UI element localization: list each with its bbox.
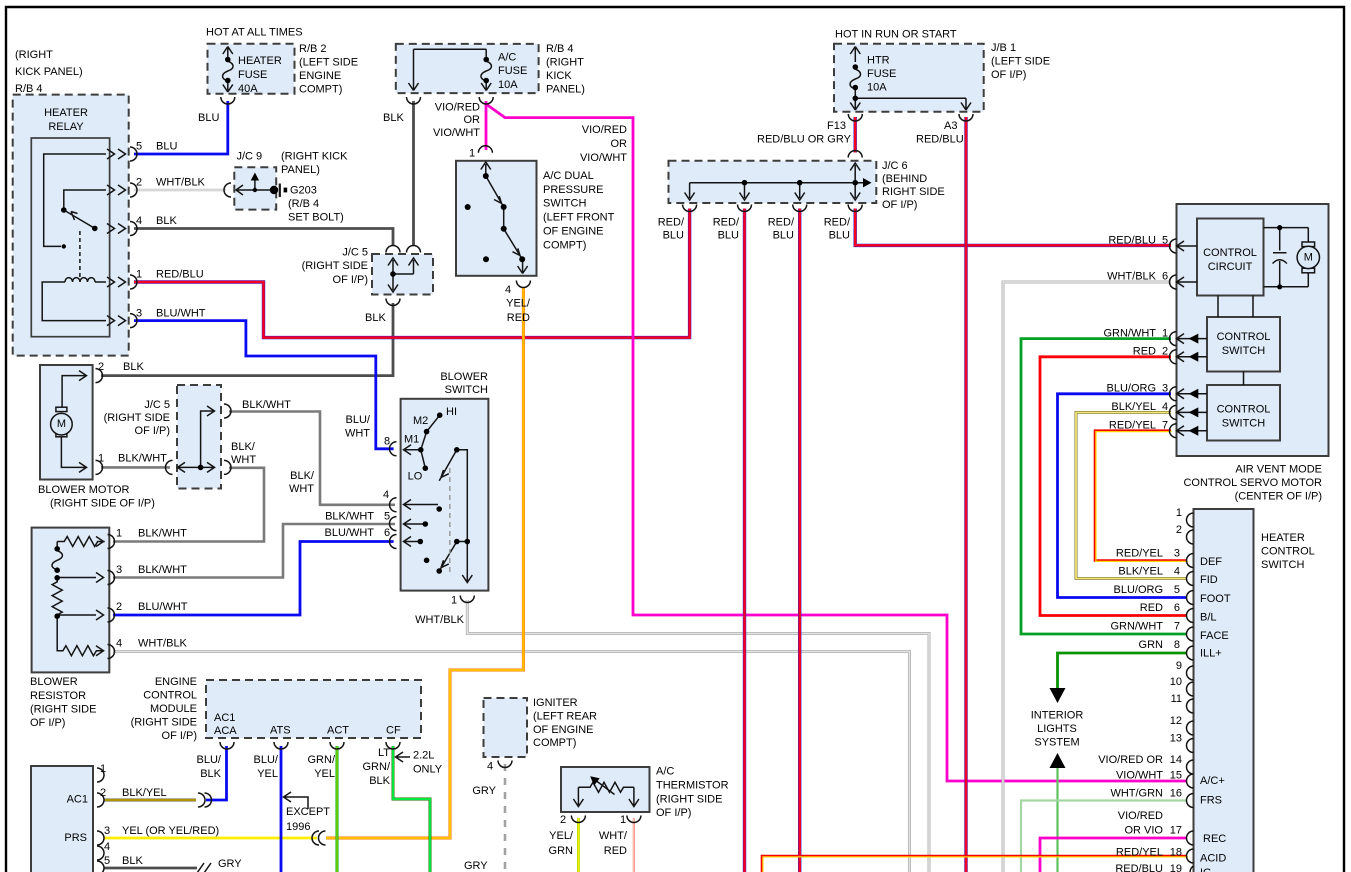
svg-text:BLK/WHT: BLK/WHT bbox=[118, 453, 167, 465]
svg-text:CONTROL SERVO MOTOR: CONTROL SERVO MOTOR bbox=[1183, 477, 1322, 489]
svg-text:5: 5 bbox=[384, 511, 390, 523]
svg-text:EXCEPT: EXCEPT bbox=[286, 806, 330, 818]
svg-text:BLU/WHT: BLU/WHT bbox=[325, 527, 375, 539]
svg-text:(RIGHT: (RIGHT bbox=[546, 57, 584, 69]
svg-text:BLU/WHT: BLU/WHT bbox=[138, 601, 188, 613]
svg-text:OF I/P): OF I/P) bbox=[162, 730, 197, 742]
svg-text:OF I/P): OF I/P) bbox=[991, 69, 1026, 81]
svg-text:VIO/RED: VIO/RED bbox=[1118, 810, 1163, 822]
blower switch S2 internals bbox=[404, 415, 475, 602]
heater relay inner contact box bbox=[31, 138, 109, 337]
wire WHT/RED thermistor pin 1 to bottom bbox=[633, 818, 635, 872]
svg-text:BLK/WHT: BLK/WHT bbox=[325, 511, 374, 523]
svg-text:M: M bbox=[1304, 252, 1313, 264]
control switch box 1 inside servo bbox=[1207, 317, 1280, 372]
wire RED/YEL heater control switch pin 18 ACID to bottom bbox=[762, 856, 1187, 872]
wire GRN/YEL ECM pin ACT to bottom bbox=[336, 746, 339, 872]
svg-text:LT: LT bbox=[378, 747, 390, 759]
svg-text:18: 18 bbox=[1170, 847, 1182, 859]
svg-text:OF I/P): OF I/P) bbox=[30, 717, 65, 729]
svg-text:WHT: WHT bbox=[345, 428, 370, 440]
svg-text:J/C 5: J/C 5 bbox=[342, 247, 368, 259]
svg-text:OF I/P): OF I/P) bbox=[333, 274, 368, 286]
A/C fuse element bbox=[407, 49, 494, 104]
svg-text:GRY: GRY bbox=[472, 785, 496, 797]
heater fuse element bbox=[221, 47, 235, 105]
svg-text:2: 2 bbox=[560, 814, 566, 826]
svg-text:VIO/RED OR: VIO/RED OR bbox=[1098, 754, 1163, 766]
junction block J/C 9 with ground G203 bbox=[234, 167, 276, 209]
svg-text:KICK PANEL): KICK PANEL) bbox=[15, 66, 83, 78]
svg-text:HEATER: HEATER bbox=[44, 107, 88, 119]
resistor R1 blower resistor box bbox=[32, 528, 110, 673]
svg-text:ATS: ATS bbox=[270, 725, 291, 737]
svg-text:HEATER: HEATER bbox=[238, 55, 282, 67]
svg-text:COMPT): COMPT) bbox=[543, 240, 586, 252]
svg-text:WHT/: WHT/ bbox=[599, 830, 628, 842]
svg-text:10A: 10A bbox=[498, 79, 518, 91]
svg-text:RED/BLU: RED/BLU bbox=[1115, 863, 1163, 872]
svg-text:BLU: BLU bbox=[198, 112, 219, 124]
svg-text:YEL/: YEL/ bbox=[506, 298, 531, 310]
svg-text:(RIGHT SIDE: (RIGHT SIDE bbox=[30, 704, 96, 716]
svg-text:YEL: YEL bbox=[257, 768, 278, 780]
svg-text:YEL (OR YEL/RED): YEL (OR YEL/RED) bbox=[122, 825, 219, 837]
svg-text:FUSE: FUSE bbox=[867, 68, 896, 80]
svg-text:J/C 6: J/C 6 bbox=[882, 160, 908, 172]
wire GRY igniter pin 4 to bottom bbox=[504, 764, 507, 872]
svg-text:WHT: WHT bbox=[231, 454, 256, 466]
svg-text:BLOWER: BLOWER bbox=[30, 676, 78, 688]
svg-text:REC: REC bbox=[1203, 833, 1226, 845]
svg-text:BLU/: BLU/ bbox=[254, 754, 279, 766]
svg-text:(BEHIND: (BEHIND bbox=[882, 173, 927, 185]
svg-text:14: 14 bbox=[1170, 754, 1182, 766]
2.2L ONLY pointer arrow bbox=[396, 752, 411, 762]
svg-text:8: 8 bbox=[1174, 639, 1180, 651]
svg-text:INTERIOR: INTERIOR bbox=[1031, 710, 1084, 722]
connector P1 AC1/PRS connector box bbox=[31, 766, 93, 872]
svg-text:R/B 4: R/B 4 bbox=[546, 43, 574, 55]
svg-text:VIO/RED: VIO/RED bbox=[435, 102, 480, 114]
splice on YEL to YEL/RED bbox=[312, 831, 326, 845]
wire YEL PRS pin 3 to splice bbox=[104, 837, 317, 840]
svg-text:J/C 9: J/C 9 bbox=[237, 151, 263, 163]
svg-text:BLK: BLK bbox=[123, 361, 144, 373]
svg-text:ENGINE: ENGINE bbox=[155, 676, 197, 688]
wire GRN/WHT servo pin 1 to heater control switch pin 7 FACE bbox=[1021, 339, 1187, 634]
svg-text:BLU: BLU bbox=[718, 230, 739, 242]
thermistor RT1 internals bbox=[571, 780, 641, 823]
svg-text:(LEFT SIDE: (LEFT SIDE bbox=[991, 56, 1050, 68]
blower motor B1 internals bbox=[51, 369, 103, 475]
svg-text:ILL+: ILL+ bbox=[1200, 648, 1222, 660]
svg-text:YEL: YEL bbox=[314, 768, 335, 780]
svg-text:11: 11 bbox=[1171, 693, 1182, 705]
svg-text:SWITCH: SWITCH bbox=[543, 198, 586, 210]
svg-text:10A: 10A bbox=[867, 82, 887, 94]
svg-text:RELAY: RELAY bbox=[48, 121, 84, 133]
junction J/C 6 internals bbox=[683, 151, 863, 212]
wire BLK J/C 5 to blower motor pin 2 bbox=[101, 303, 393, 376]
motor B1 blower motor box bbox=[40, 365, 93, 480]
wire WHT/GRN heater control switch pin 16 FRS to bottom bbox=[1021, 801, 1187, 872]
svg-text:R/B 4: R/B 4 bbox=[15, 83, 43, 95]
pressure switch S1 internals bbox=[478, 146, 530, 288]
svg-text:THERMISTOR: THERMISTOR bbox=[656, 780, 729, 792]
svg-text:ONLY: ONLY bbox=[413, 764, 443, 776]
wire BLU/ORG servo pin 3 to heater control switch pin 5 FOOT bbox=[1058, 394, 1188, 598]
svg-text:(CENTER OF I/P): (CENTER OF I/P) bbox=[1235, 491, 1322, 503]
thermistor RT1 A/C thermistor box bbox=[561, 767, 650, 812]
wire BLK/WHT blower resistor pin 3 to blower switch pin 5 bbox=[113, 524, 395, 578]
svg-text:1: 1 bbox=[469, 148, 475, 160]
svg-text:RED: RED bbox=[1133, 346, 1156, 358]
svg-text:1: 1 bbox=[100, 763, 106, 775]
svg-text:GRY: GRY bbox=[464, 860, 488, 872]
svg-text:A/C: A/C bbox=[656, 766, 674, 778]
svg-text:SYSTEM: SYSTEM bbox=[1034, 737, 1079, 749]
svg-text:RED: RED bbox=[604, 845, 627, 857]
svg-text:2: 2 bbox=[1176, 524, 1182, 536]
blower resistor R1 internals bbox=[52, 535, 115, 659]
svg-text:15: 15 bbox=[1170, 770, 1182, 782]
HTR fuse element bbox=[848, 47, 973, 122]
svg-text:7: 7 bbox=[1162, 420, 1168, 432]
svg-text:WHT/GRN: WHT/GRN bbox=[1110, 788, 1163, 800]
svg-text:CF: CF bbox=[386, 725, 401, 737]
svg-text:7: 7 bbox=[1174, 621, 1180, 633]
svg-text:WHT/BLK: WHT/BLK bbox=[138, 638, 188, 650]
svg-text:BLU: BLU bbox=[663, 230, 684, 242]
svg-text:HOT IN RUN OR START: HOT IN RUN OR START bbox=[835, 29, 957, 41]
svg-text:BLK: BLK bbox=[365, 312, 386, 324]
relay pins 5,2,4,1,3 chevrons and connectors bbox=[107, 147, 137, 328]
svg-text:HI: HI bbox=[446, 406, 457, 418]
junction J/C 5 lower internals bbox=[166, 404, 231, 474]
svg-text:BLK: BLK bbox=[122, 855, 143, 867]
wire RED/YEL servo pin 7 to heater control switch pin 3 DEF bbox=[1095, 431, 1187, 561]
interior lights system arrow down bbox=[1050, 688, 1066, 703]
svg-text:2: 2 bbox=[1162, 346, 1168, 358]
wire RED/BLU J/C 6 leg 2 bbox=[798, 209, 801, 872]
svg-text:RED/BLU: RED/BLU bbox=[1108, 235, 1156, 247]
switch S2 blower switch box bbox=[401, 399, 489, 591]
svg-text:GRN: GRN bbox=[549, 845, 574, 857]
svg-text:ACID: ACID bbox=[1200, 853, 1226, 865]
switch S3 heater control switch box bbox=[1194, 509, 1254, 872]
svg-text:(RIGHT SIDE: (RIGHT SIDE bbox=[104, 412, 170, 424]
svg-text:BLU/: BLU/ bbox=[346, 414, 371, 426]
svg-text:A3: A3 bbox=[944, 120, 957, 132]
svg-text:RED: RED bbox=[1140, 602, 1163, 614]
wire RED/BLU A3 HTR fuse run to bottom bbox=[964, 117, 967, 872]
fuse box HEATER FUSE 40A (R/B 2) bbox=[208, 44, 295, 94]
switch S1 A/C dual pressure switch box bbox=[456, 161, 537, 276]
svg-text:GRN/WHT: GRN/WHT bbox=[1110, 621, 1163, 633]
svg-text:ACT: ACT bbox=[327, 725, 349, 737]
wire BLK relay pin 4 to J/C 5 bbox=[134, 229, 393, 247]
wire BLU/WHT blower resistor pin 2 to blower switch pin 6 bbox=[113, 542, 394, 616]
svg-text:SWITCH: SWITCH bbox=[445, 384, 488, 396]
svg-text:3: 3 bbox=[1174, 548, 1180, 560]
svg-text:1: 1 bbox=[1162, 328, 1168, 340]
splice on BLK/YEL to BLU/BLK bbox=[198, 793, 212, 807]
svg-text:RED/YEL: RED/YEL bbox=[1116, 548, 1163, 560]
svg-text:SWITCH: SWITCH bbox=[1222, 345, 1265, 357]
wire RED/BLU J/C 6 leg 1 bbox=[743, 209, 746, 872]
svg-text:4: 4 bbox=[487, 761, 493, 773]
svg-text:3: 3 bbox=[104, 825, 110, 837]
svg-text:9: 9 bbox=[1176, 660, 1182, 672]
wire RED/BLU J/C 6 to servo pin 5 bbox=[855, 209, 1171, 246]
svg-text:VIO/WHT: VIO/WHT bbox=[1116, 770, 1163, 782]
svg-text:1: 1 bbox=[1176, 507, 1182, 519]
svg-text:PRS: PRS bbox=[64, 832, 87, 844]
svg-text:HOT AT ALL TIMES: HOT AT ALL TIMES bbox=[206, 27, 303, 39]
servo motor U2 internals: control circuit, capacitor C1, motor M1 bbox=[1218, 228, 1320, 385]
junction block J/C 6 bbox=[669, 161, 877, 203]
svg-text:BLU/: BLU/ bbox=[197, 754, 222, 766]
svg-text:RED/BLU OR GRY: RED/BLU OR GRY bbox=[757, 134, 852, 146]
svg-text:WHT/BLK: WHT/BLK bbox=[1107, 271, 1157, 283]
svg-text:RED/: RED/ bbox=[658, 217, 685, 229]
svg-text:16: 16 bbox=[1170, 788, 1182, 800]
svg-text:VIO/RED: VIO/RED bbox=[582, 124, 627, 136]
svg-text:FRS: FRS bbox=[1200, 795, 1222, 807]
svg-text:(RIGHT SIDE: (RIGHT SIDE bbox=[302, 260, 368, 272]
svg-text:CONTROL: CONTROL bbox=[1217, 331, 1271, 343]
svg-text:A/C DUAL: A/C DUAL bbox=[543, 170, 594, 182]
svg-text:(R/B 4: (R/B 4 bbox=[288, 198, 319, 210]
svg-text:6: 6 bbox=[384, 527, 390, 539]
svg-text:GRN: GRN bbox=[1139, 639, 1164, 651]
svg-text:(LEFT SIDE: (LEFT SIDE bbox=[299, 57, 358, 69]
igniter pin 4 connector bbox=[498, 761, 512, 768]
EXCEPT 1996 pointer arrow bbox=[284, 792, 309, 809]
wire RED servo pin 2 to heater control switch pin 6 B/L bbox=[1040, 357, 1187, 616]
wire BLK/WHT J/C 5 lower to blower resistor pin 1 bbox=[113, 468, 264, 542]
junction J/C 9 internals and ground G203 bbox=[224, 180, 280, 197]
svg-text:RED/BLU: RED/BLU bbox=[156, 269, 204, 281]
svg-text:CIRCUIT: CIRCUIT bbox=[1208, 261, 1253, 273]
svg-text:1: 1 bbox=[451, 595, 457, 607]
svg-text:(RIGHT SIDE: (RIGHT SIDE bbox=[131, 717, 197, 729]
svg-text:IG: IG bbox=[1200, 867, 1212, 872]
svg-text:BLK/YEL: BLK/YEL bbox=[122, 787, 167, 799]
splice on BLK to GRY bbox=[197, 863, 211, 872]
heater control switch pin connectors 1-19 bbox=[1187, 513, 1194, 872]
svg-text:BLU: BLU bbox=[829, 230, 850, 242]
relay R1 internals bbox=[42, 154, 106, 321]
svg-text:BLU/WHT: BLU/WHT bbox=[156, 308, 206, 320]
svg-text:5: 5 bbox=[136, 141, 142, 153]
wire VIO/RED or VIO/WHT A/C fuse to heater control switch pin 15 A/C+ bbox=[486, 101, 1187, 781]
svg-text:BLU: BLU bbox=[773, 230, 794, 242]
svg-text:4: 4 bbox=[383, 489, 389, 501]
svg-text:CONTROL: CONTROL bbox=[1217, 404, 1271, 416]
svg-text:RED/YEL: RED/YEL bbox=[1116, 847, 1163, 859]
svg-text:17: 17 bbox=[1170, 825, 1182, 837]
svg-text:(LEFT FRONT: (LEFT FRONT bbox=[543, 212, 615, 224]
wire BLK A/C fuse to J/C 5 bbox=[412, 101, 415, 246]
svg-text:WHT/BLK: WHT/BLK bbox=[156, 177, 206, 189]
relay R/B4 heater relay box bbox=[13, 95, 129, 356]
svg-text:4: 4 bbox=[1174, 566, 1180, 578]
svg-text:1: 1 bbox=[620, 814, 626, 826]
svg-text:R/B 2: R/B 2 bbox=[299, 43, 327, 55]
fuse box HTR FUSE 10A (J/B 1) bbox=[834, 44, 984, 112]
svg-text:RIGHT SIDE: RIGHT SIDE bbox=[882, 186, 945, 198]
svg-text:AIR VENT MODE: AIR VENT MODE bbox=[1235, 464, 1322, 476]
wire RED/BLU F13 HTR fuse to J/C 6 bbox=[854, 117, 857, 153]
svg-text:1996: 1996 bbox=[286, 821, 310, 833]
svg-text:MODULE: MODULE bbox=[150, 703, 197, 715]
control circuit box inside servo bbox=[1197, 219, 1264, 296]
svg-text:CONTROL: CONTROL bbox=[1203, 247, 1257, 259]
svg-text:OR VIO: OR VIO bbox=[1124, 825, 1163, 837]
AC1/PRS connector pins bbox=[97, 768, 104, 872]
junction block J/C 5 (upper) bbox=[372, 254, 433, 295]
svg-text:A/C: A/C bbox=[498, 52, 516, 64]
svg-text:1: 1 bbox=[116, 528, 122, 540]
svg-text:BLK/WHT: BLK/WHT bbox=[138, 528, 187, 540]
svg-text:FID: FID bbox=[1200, 574, 1218, 586]
svg-text:GRY: GRY bbox=[218, 858, 242, 870]
svg-text:OF I/P): OF I/P) bbox=[882, 199, 917, 211]
wire YEL/GRN thermistor pin 2 to bottom bbox=[577, 818, 580, 872]
svg-text:BLK: BLK bbox=[200, 768, 221, 780]
svg-text:M1: M1 bbox=[404, 434, 419, 446]
svg-text:2: 2 bbox=[98, 361, 104, 373]
svg-text:LO: LO bbox=[408, 470, 423, 482]
svg-text:3: 3 bbox=[116, 564, 122, 576]
svg-text:BLK/: BLK/ bbox=[231, 441, 256, 453]
svg-text:OF I/P): OF I/P) bbox=[656, 807, 691, 819]
servo pin arrows and connectors bbox=[1170, 239, 1207, 438]
svg-text:G203: G203 bbox=[290, 185, 317, 197]
svg-text:5: 5 bbox=[104, 855, 110, 867]
svg-text:1: 1 bbox=[98, 453, 104, 465]
svg-text:A/C+: A/C+ bbox=[1200, 775, 1225, 787]
svg-text:BLU/ORG: BLU/ORG bbox=[1113, 584, 1163, 596]
module U2 air vent mode control servo motor box bbox=[1177, 204, 1329, 456]
svg-text:10: 10 bbox=[1170, 676, 1182, 688]
svg-text:OF I/P): OF I/P) bbox=[135, 425, 170, 437]
wire WHT/BLK blower resistor pin 4 run to bottom bbox=[113, 652, 910, 872]
svg-text:AC1: AC1 bbox=[67, 794, 88, 806]
svg-text:19: 19 bbox=[1170, 863, 1182, 872]
svg-text:FUSE: FUSE bbox=[238, 69, 267, 81]
svg-text:OR: OR bbox=[611, 138, 628, 150]
wire BLK/WHT blower motor pin 1 to J/C 5 lower bbox=[101, 466, 170, 469]
svg-text:PANEL): PANEL) bbox=[281, 164, 320, 176]
wire YEL/RED pressure switch pin 4 to PRS splice bbox=[326, 287, 523, 838]
svg-text:DEF: DEF bbox=[1200, 556, 1222, 568]
svg-text:FUSE: FUSE bbox=[498, 65, 527, 77]
svg-text:IGNITER: IGNITER bbox=[533, 697, 578, 709]
svg-text:GRN/WHT: GRN/WHT bbox=[1103, 328, 1156, 340]
svg-text:PANEL): PANEL) bbox=[546, 84, 585, 96]
svg-text:6: 6 bbox=[1174, 602, 1180, 614]
svg-text:(RIGHT: (RIGHT bbox=[15, 49, 53, 61]
svg-text:6: 6 bbox=[1162, 271, 1168, 283]
svg-text:J/B 1: J/B 1 bbox=[991, 42, 1016, 54]
svg-text:F13: F13 bbox=[827, 120, 846, 132]
svg-text:PRESSURE: PRESSURE bbox=[543, 184, 604, 196]
svg-text:2.2L: 2.2L bbox=[413, 750, 434, 762]
svg-text:RED/YEL: RED/YEL bbox=[1109, 420, 1156, 432]
wire BLU/BLK splice to ECM pin AC1/ACA bbox=[206, 746, 227, 800]
fuse box A/C FUSE 10A (R/B 4) bbox=[396, 44, 539, 93]
svg-text:FOOT: FOOT bbox=[1200, 593, 1231, 605]
svg-text:GRN/: GRN/ bbox=[308, 754, 336, 766]
svg-text:RED/: RED/ bbox=[768, 217, 795, 229]
svg-text:SET BOLT): SET BOLT) bbox=[288, 212, 344, 224]
svg-text:ACA: ACA bbox=[214, 725, 237, 737]
wire BLU/YEL ECM pin ATS to bottom bbox=[280, 746, 283, 872]
svg-text:2: 2 bbox=[136, 177, 142, 189]
svg-text:CONTROL: CONTROL bbox=[1261, 546, 1315, 558]
svg-text:1: 1 bbox=[136, 269, 142, 281]
svg-text:4: 4 bbox=[1162, 401, 1168, 413]
wire BLK PRS pin 5 to splice bbox=[104, 867, 197, 870]
svg-text:M2: M2 bbox=[413, 415, 428, 427]
svg-text:(RIGHT KICK: (RIGHT KICK bbox=[281, 151, 348, 163]
svg-text:RESISTOR: RESISTOR bbox=[30, 690, 86, 702]
svg-text:VIO/WHT: VIO/WHT bbox=[433, 127, 480, 139]
module U1 engine control module box bbox=[206, 680, 421, 738]
svg-text:2: 2 bbox=[116, 601, 122, 613]
wire WHT/BLK blower switch pin 1 run to bottom bbox=[467, 600, 929, 872]
svg-text:BLK/YEL: BLK/YEL bbox=[1118, 566, 1163, 578]
svg-text:40A: 40A bbox=[238, 83, 258, 95]
svg-text:BLK/YEL: BLK/YEL bbox=[1111, 401, 1156, 413]
svg-text:AC1: AC1 bbox=[214, 712, 235, 724]
svg-text:BLK/: BLK/ bbox=[290, 470, 315, 482]
wire GRN interior lights feed from bottom bbox=[1056, 768, 1058, 872]
svg-text:OF ENGINE: OF ENGINE bbox=[543, 226, 604, 238]
svg-text:RED/: RED/ bbox=[824, 217, 851, 229]
svg-text:BLK: BLK bbox=[383, 112, 404, 124]
control switch box 2 inside servo bbox=[1207, 385, 1280, 441]
svg-text:J/C 5: J/C 5 bbox=[144, 399, 170, 411]
svg-text:OR: OR bbox=[464, 114, 481, 126]
wire VIO/RED OR VIO heater control switch pin 17 REC to bottom bbox=[1040, 838, 1187, 872]
svg-text:WHT: WHT bbox=[289, 483, 314, 495]
svg-text:RED: RED bbox=[507, 312, 530, 324]
svg-text:BLK: BLK bbox=[369, 775, 390, 787]
svg-text:YEL/: YEL/ bbox=[549, 830, 574, 842]
interior lights system arrow up bbox=[1050, 753, 1066, 768]
svg-text:5: 5 bbox=[1162, 235, 1168, 247]
svg-text:RED/BLU: RED/BLU bbox=[916, 134, 964, 146]
svg-text:KICK: KICK bbox=[546, 70, 572, 82]
svg-text:4: 4 bbox=[116, 638, 122, 650]
svg-text:COMPT): COMPT) bbox=[533, 737, 576, 749]
svg-text:BLOWER MOTOR: BLOWER MOTOR bbox=[38, 484, 130, 496]
svg-text:RED/: RED/ bbox=[713, 217, 740, 229]
svg-text:8: 8 bbox=[384, 436, 390, 448]
igniter box bbox=[484, 698, 528, 757]
svg-text:BLU: BLU bbox=[156, 141, 177, 153]
svg-text:SWITCH: SWITCH bbox=[1222, 418, 1265, 430]
svg-text:HTR: HTR bbox=[867, 55, 890, 67]
svg-text:LIGHTS: LIGHTS bbox=[1037, 723, 1077, 735]
junction J/C 5 upper internals bbox=[386, 246, 421, 306]
svg-text:CONTROL: CONTROL bbox=[143, 690, 197, 702]
svg-text:M: M bbox=[57, 418, 66, 430]
